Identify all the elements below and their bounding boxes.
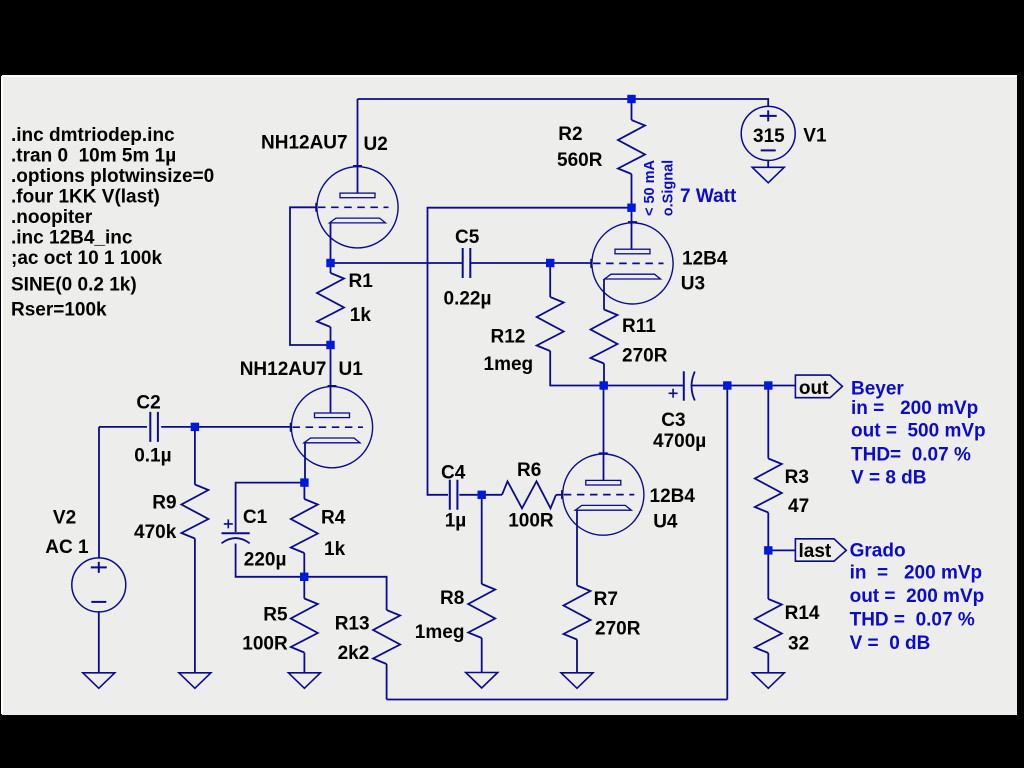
svg-text:V = 0 dB: V = 0 dB (850, 633, 931, 654)
triode tube U2 NH12AU7 (316, 166, 398, 248)
svg-text:270R: 270R (622, 345, 668, 366)
wire U2 cathode lead (330, 223, 332, 263)
wire U3 plate lead (631, 208, 633, 250)
wire U2 cathode to C5 (331, 262, 463, 264)
svg-text:100R: 100R (508, 510, 554, 531)
node junction last node (764, 546, 772, 554)
svg-text:315: 315 (753, 126, 785, 147)
svg-text:U3: U3 (681, 274, 705, 295)
wire U2 grid to R1 bottom node (290, 207, 331, 345)
svg-text:.tran 0 10m 5m 1µ: .tran 0 10m 5m 1µ (11, 146, 176, 167)
svg-text:.inc dmtriodep.inc: .inc dmtriodep.inc (11, 125, 175, 146)
wire R8 bottom lead (481, 638, 483, 673)
wire R6 to U4 grid (556, 494, 563, 496)
node junction out node / R3 (764, 381, 772, 389)
node junction U2 cathode node (326, 259, 334, 267)
svg-text:220µ: 220µ (244, 550, 287, 571)
wire last node to flag (768, 549, 795, 551)
node junction R2 bottom / U3 plate (627, 204, 635, 212)
node junction top rail / R2 (627, 95, 635, 103)
svg-text:in = 200 mVp: in = 200 mVp (850, 563, 983, 584)
wire U1 plate lead (330, 345, 332, 413)
resistor R4 (291, 499, 318, 553)
resistor R13 (373, 610, 400, 664)
svg-text:NH12AU7: NH12AU7 (261, 133, 348, 154)
ground ground R7 (561, 673, 593, 689)
wire U4 cathode lead (576, 510, 578, 585)
svg-text:R3: R3 (785, 467, 809, 488)
node junction U2 grid / R1 / U1 plate (326, 341, 334, 349)
svg-text:Beyer: Beyer (851, 378, 904, 399)
svg-text:C5: C5 (455, 227, 480, 248)
capacitor C5 (463, 248, 471, 278)
wire R2 bottom lead (631, 174, 633, 208)
svg-text:12B4: 12B4 (682, 249, 728, 270)
resistor R14 (755, 599, 782, 653)
resistor R12 (537, 297, 564, 351)
resistor R9 (181, 485, 208, 539)
wire R2 bottom to C4 stem (428, 208, 632, 495)
node junction out node / R11 / U4 plate (600, 381, 608, 389)
svg-text:.options plotwinsize=0: .options plotwinsize=0 (11, 166, 214, 187)
wire U1 cathode lead (304, 443, 306, 483)
svg-text:0.22µ: 0.22µ (444, 289, 492, 310)
svg-text:R6: R6 (517, 460, 541, 481)
wire C1 bottom lead (236, 544, 305, 577)
output flag out (795, 375, 842, 398)
svg-text:V = 8 dB: V = 8 dB (851, 467, 927, 488)
svg-text:270R: 270R (595, 619, 641, 640)
svg-text:4700µ: 4700µ (653, 431, 706, 452)
svg-text:U2: U2 (364, 134, 388, 155)
svg-text:U1: U1 (339, 359, 364, 380)
svg-text:100R: 100R (242, 634, 288, 655)
svg-text:0.1µ: 0.1µ (134, 445, 171, 466)
ground ground V1 (752, 167, 784, 183)
svg-text:V2: V2 (53, 508, 76, 529)
wire R9 node to U1 grid (195, 426, 292, 428)
svg-text:out = 500 mVp: out = 500 mVp (851, 420, 986, 441)
node junction U3 grid / R12 (546, 259, 554, 267)
wire R14 bottom lead (767, 653, 769, 673)
svg-text:32: 32 (788, 633, 809, 654)
wire R3 bottom lead (767, 513, 769, 551)
ground ground V2 (83, 673, 115, 689)
ground ground R8 (466, 673, 498, 689)
wire U2 plate lead (357, 99, 359, 193)
svg-text:R13: R13 (335, 614, 370, 635)
wire V2 top lead (98, 427, 100, 558)
wire out node to C3 (604, 385, 684, 387)
wire R5 top lead (303, 577, 305, 599)
ground ground R9 (179, 673, 211, 689)
svg-text:R11: R11 (622, 316, 656, 337)
wire V2 to C2 (99, 426, 147, 428)
triode tube U4 12B4 (562, 453, 644, 535)
svg-text:in = 200 mVp: in = 200 mVp (851, 398, 978, 419)
svg-text:12B4: 12B4 (650, 486, 696, 507)
output flag last (795, 539, 846, 561)
svg-text:.noopiter: .noopiter (11, 207, 93, 228)
svg-text:Grado: Grado (850, 541, 906, 562)
voltage source V1 (741, 106, 795, 160)
voltage source V2 (72, 558, 126, 612)
wire R9 bottom lead (194, 539, 196, 673)
wire U3 cathode lead (603, 279, 605, 310)
wire top rail B+ to V1 (358, 99, 769, 107)
resistor R11 (591, 310, 618, 364)
resistor R8 (468, 584, 495, 638)
wire C1 node to R13 (304, 577, 386, 610)
resistor R2 (618, 120, 645, 174)
wire R4 bottom lead (303, 553, 305, 577)
svg-text:1k: 1k (324, 539, 346, 560)
ground ground R14 (752, 673, 784, 689)
node junction out node / feedback (723, 381, 731, 389)
svg-text:C3: C3 (661, 410, 685, 431)
svg-text:THD= 0.07 %: THD= 0.07 % (851, 444, 971, 465)
wire R11 bottom lead (603, 364, 605, 386)
svg-text:R8: R8 (440, 588, 464, 609)
svg-text:C4: C4 (441, 463, 466, 484)
wire R4 top lead (303, 483, 305, 499)
wire feedback down from out node (726, 386, 728, 700)
wire R2 top lead (631, 99, 633, 120)
svg-text:R2: R2 (558, 124, 582, 145)
wire U4 plate lead (603, 386, 605, 481)
capacitor C3 polarized (669, 371, 695, 400)
node junction C4 / R6 / R8 (478, 491, 486, 499)
svg-text:.inc 12B4_inc: .inc 12B4_inc (11, 227, 133, 248)
svg-text:1meg: 1meg (415, 622, 465, 643)
svg-text:SINE(0 0.2 1k): SINE(0 0.2 1k) (11, 274, 137, 295)
svg-text:R9: R9 (152, 492, 176, 513)
capacitor C4 (450, 480, 458, 510)
svg-text:1meg: 1meg (484, 354, 534, 375)
svg-text:.four 1KK V(last): .four 1KK V(last) (11, 187, 160, 208)
svg-text:;ac oct 10 1 100k: ;ac oct 10 1 100k (11, 248, 162, 269)
svg-text:470k: 470k (134, 522, 177, 543)
svg-text:R14: R14 (785, 603, 820, 624)
capacitor C1 polarized (222, 519, 250, 543)
wire R8 top lead (481, 495, 483, 584)
wire R7 bottom lead (576, 640, 578, 673)
wire R14 top lead (767, 550, 769, 599)
svg-text:THD = 0.07 %: THD = 0.07 % (850, 609, 975, 630)
svg-text:o.Signal: o.Signal (661, 160, 677, 216)
resistor R3 (755, 459, 782, 513)
svg-text:C1: C1 (243, 507, 268, 528)
resistor R7 (564, 586, 591, 640)
svg-text:last: last (799, 541, 832, 562)
wire U1 cathode to C1 top (236, 483, 305, 532)
wire R12 bottom to out node (550, 351, 604, 386)
svg-text:C2: C2 (136, 393, 160, 414)
svg-text:U4: U4 (653, 512, 678, 533)
svg-text:2k2: 2k2 (338, 643, 370, 664)
resistor R1 (317, 273, 344, 327)
svg-text:R5: R5 (263, 605, 288, 626)
wire R3 top lead (767, 386, 769, 459)
svg-text:R1: R1 (349, 271, 374, 292)
capacitor C2 (150, 412, 158, 442)
node junction C2 / R9 / U1 grid (191, 423, 199, 431)
svg-text:out: out (799, 378, 829, 399)
wire C2 to R9 node (161, 426, 195, 428)
svg-text:NH12AU7: NH12AU7 (240, 359, 327, 380)
wire R5 bottom lead (303, 653, 305, 673)
svg-text:R12: R12 (491, 327, 526, 348)
node junction U1 cathode / C1 / R4 (300, 478, 308, 486)
svg-text:R7: R7 (594, 589, 618, 610)
svg-text:V1: V1 (803, 126, 827, 147)
wire R1 top lead (330, 263, 332, 273)
wire C4 to R6 node (459, 494, 502, 496)
triode tube U3 12B4 (591, 222, 673, 304)
resistor R6 (502, 481, 556, 508)
wire C5 to U3 grid (471, 262, 592, 264)
wire V1 to ground (767, 160, 769, 168)
wire feedback bottom rail (387, 699, 728, 701)
node junction R4 / C1 / R5 / R13 (300, 573, 308, 581)
triode tube U1 NH12AU7 (290, 386, 372, 468)
wire V2 bottom lead (98, 612, 100, 673)
resistor R5 (291, 599, 318, 653)
svg-text:47: 47 (788, 496, 809, 517)
svg-text:R4: R4 (321, 508, 346, 529)
svg-text:1µ: 1µ (445, 510, 467, 531)
wire feedback up to R13 (386, 664, 388, 700)
svg-text:out = 200 mVp: out = 200 mVp (850, 586, 985, 607)
svg-text:560R: 560R (557, 150, 603, 171)
svg-text:< 50 mA: < 50 mA (642, 159, 658, 216)
svg-text:Rser=100k: Rser=100k (11, 299, 107, 320)
wire C3 to out flag (692, 385, 796, 387)
svg-text:7 Watt: 7 Watt (680, 186, 737, 207)
svg-text:AC 1: AC 1 (45, 537, 89, 558)
wire R1 bottom lead (330, 327, 332, 345)
wire R12 top lead (549, 263, 551, 297)
ground ground R5 (288, 673, 320, 689)
wire R9 top lead (194, 427, 196, 485)
svg-text:1k: 1k (350, 305, 372, 326)
